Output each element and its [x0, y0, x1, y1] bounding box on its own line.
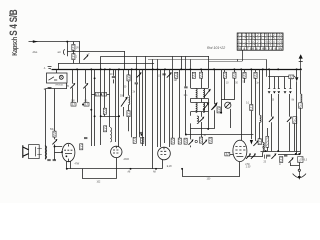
tuning gang arrow [225, 102, 230, 107]
resistor x201 low [200, 137, 203, 143]
node x119 y116.2 [118, 115, 120, 117]
band switch bar [268, 76, 295, 78]
wire v x289.3 [289, 94, 291, 151]
wire v x91.3 lower [91, 94, 93, 146]
capacitor x185.9 [184, 87, 187, 88]
tube V1 cathode blob [66, 155, 68, 157]
node x221.2 y112.7 [220, 112, 222, 114]
chain cap arrow [52, 139, 57, 144]
cathode coil V4 [263, 142, 264, 152]
wire v x244.5 [244, 69, 246, 83]
wire coil to grid row [190, 123, 192, 147]
wire v x100.7 lower [100, 127, 102, 145]
tuning gang circle [225, 102, 231, 108]
IF1 trimmer arrow [205, 91, 210, 97]
node x190.5 bus [190, 68, 192, 70]
IF2 trimmer arrow b [211, 104, 216, 110]
wire v x85.4 [85, 69, 87, 102]
wire v x230.6 low [230, 109, 232, 128]
wire v x161 [160, 69, 162, 147]
wire v x266.2 low [266, 76, 268, 78]
wire h y99.8 gang top [221, 99, 234, 101]
wire v x300.4 [300, 71, 302, 154]
terminal E [48, 88, 52, 89]
node x136.3 bus [135, 68, 137, 70]
node x208.2 y128.9 [207, 128, 209, 130]
resistor 500a [133, 137, 136, 143]
wire box to V4 [230, 154, 233, 156]
wire R1-R2 column [73, 42, 75, 64]
loudspeaker frame [29, 145, 40, 159]
resistor x244.5 [243, 72, 246, 78]
wire vertical x237.5 [237, 59, 239, 61]
resistor x255.5 [254, 72, 257, 78]
wire vertical x80 [79, 42, 81, 64]
wire v x181.2 upper [181, 56, 183, 69]
wire horizontal y51.4 [67, 51, 125, 53]
earth hook [293, 174, 306, 178]
wire v x278.2 [278, 94, 280, 151]
lamp cross [60, 76, 63, 79]
node y168.8 b [155, 168, 157, 170]
node x265.7 y151.1 [265, 150, 267, 152]
wire x58 y63-69 [58, 63, 60, 69]
loudspeaker cone [23, 145, 29, 158]
wire v x169.4 [169, 69, 171, 147]
node x54.5 y146.5 [54, 146, 56, 148]
osc coil right [260, 115, 261, 122]
node x91.3 y109.7 [90, 109, 92, 111]
node x185.9 y134.5 [185, 134, 187, 136]
wire v x157.5 [157, 69, 159, 147]
mains arrow stem [300, 59, 302, 71]
wire terminal E to switchbox [46, 88, 68, 90]
output tran hatch [293, 117, 296, 123]
switch contact 3 [278, 77, 280, 89]
bottom row cap a [267, 155, 270, 156]
node x299.3 y154 [298, 153, 300, 155]
resistor R1 [72, 44, 75, 50]
switch contact 1 [269, 69, 271, 88]
wire v x179.8 [179, 69, 181, 138]
tube V2 envelope [111, 146, 122, 157]
node x94.6 y78.3 [94, 77, 96, 79]
small node circle [263, 146, 265, 148]
choke coil [300, 94, 302, 102]
wire h y151.1 left ext [261, 151, 277, 153]
wire v x255.5 [255, 69, 257, 141]
wire chain to tube1 grid [55, 152, 63, 154]
wire tube1 to heater bus [66, 162, 68, 169]
node top joint [66, 41, 68, 43]
IF link wire [191, 98, 202, 115]
hatched box on switch bar [289, 75, 294, 79]
trimmer x168 top [167, 72, 172, 77]
padder cap arrow [70, 83, 75, 88]
tube1 second base drop [70, 161, 72, 169]
resistor 500b [141, 137, 144, 143]
node mains joint [300, 68, 302, 70]
node bus x77 [76, 68, 78, 70]
svg-text:E,28: E,28 [167, 166, 172, 168]
wire v x136.3 [136, 69, 138, 137]
trimmer pad b [287, 117, 292, 122]
wire v x152.8 long [152, 59, 154, 169]
left resistor chain [54, 89, 56, 160]
node x234.4 bus [233, 68, 235, 70]
IF1 secondary coil [203, 89, 204, 99]
wire v x262.8 [262, 69, 264, 156]
node x104.9 bus [104, 68, 106, 70]
choke box [299, 103, 303, 108]
tube data table frame [237, 33, 283, 50]
wire v x259.7 [259, 69, 261, 138]
node x214.1 bus [213, 68, 215, 70]
svg-text:A306: A306 [124, 158, 130, 161]
small res right of tube1 top [80, 144, 83, 150]
wire v x172.7 [172, 69, 174, 138]
wire v x208.2 [208, 69, 210, 129]
wire v x119 [118, 69, 120, 146]
heater bus wire [67, 168, 162, 170]
stub x185.9 up [185, 56, 187, 69]
node tube1 base [66, 168, 68, 170]
tube V2 electrodes [113, 146, 118, 153]
wire v x234.4 [234, 69, 236, 100]
wire horizontal y56.3 [101, 56, 209, 58]
bottom row arrow b [251, 153, 256, 158]
node x251.3 bus [250, 68, 252, 70]
stub x157.5 up [157, 59, 159, 69]
capacitor x135 [135, 83, 138, 84]
cap column x185.9 [185, 69, 187, 134]
wire drop to trimmer [67, 42, 69, 57]
resistor x184 row [184, 138, 187, 144]
wire v x241.2 [241, 69, 243, 140]
IF2 primary coil [196, 103, 197, 113]
wire v x94.6 lower [94, 92, 96, 146]
trimmer x138 top [137, 72, 142, 77]
electrolytic triangle [295, 77, 298, 81]
svg-text:ant: ant [58, 51, 62, 54]
node x182.1 y168.8 [181, 168, 183, 170]
node x201.1 bus [200, 68, 202, 70]
coupling circlet [195, 140, 197, 142]
resistor x172 [171, 138, 174, 144]
cap arrow C2 [83, 83, 88, 88]
trimmer x201 mid [199, 117, 204, 122]
node x295.7 y154 [295, 153, 297, 155]
resistor x259.7 low [258, 139, 261, 145]
wire speaker drop [45, 89, 47, 160]
resistor x103.5 low [104, 126, 107, 132]
earth hook arrow [299, 171, 301, 176]
node x152.8 bus [152, 68, 154, 70]
wire v x214.1 [214, 69, 216, 129]
antenna lead-in wire [29, 41, 81, 43]
wire v x225 [224, 69, 226, 100]
mains arrowhead [299, 54, 303, 58]
node x131.7 bus [131, 68, 133, 70]
capacitor x164 top [162, 74, 165, 75]
wire vertical x266.2 [266, 59, 268, 77]
svg-text:1R: 1R [76, 47, 79, 49]
trimmer x203 row [202, 140, 207, 145]
grid cap arrow [189, 139, 194, 144]
switch contact feet dots [268, 92, 291, 93]
wire v x128.5 [128, 69, 130, 131]
tube V1 anode tick [68, 144, 70, 146]
field coil [45, 146, 47, 159]
main supply bus [52, 69, 302, 71]
bottom row arrow a [246, 153, 251, 158]
coil x128 [129, 95, 130, 104]
wire v x115.9 [115, 69, 117, 142]
grid stopper box left of V4 [225, 152, 230, 156]
cap below speaker b [53, 160, 56, 161]
wire v x294.8 low [294, 124, 296, 152]
node x100.7 y116.2 [100, 115, 102, 117]
wire vertical x125 [124, 51, 126, 69]
resistor x251 [250, 105, 253, 111]
wire v x77.1 [77, 69, 79, 102]
svg-text:Abst.: Abst. [33, 51, 39, 54]
wire v x91.3 [91, 69, 93, 94]
svg-text:2.50': 2.50' [246, 166, 251, 168]
wire h y134.5 [186, 134, 254, 136]
wire h y151.1 [277, 151, 301, 153]
node x296.6 bus [296, 68, 298, 70]
resistor x128 low [127, 111, 130, 117]
svg-text:50 4 7 80 4 2 95 2,8 6,3V: 50 4 7 80 4 2 95 2,8 6,3V [238, 47, 283, 51]
node x91.3 bus [90, 68, 92, 70]
earth link bar [290, 162, 300, 169]
wire v x267.2 ends [267, 128, 269, 151]
wire v x72.4 [72, 69, 74, 102]
resistor 50k b [102, 92, 107, 96]
IF2 secondary coil [203, 103, 204, 113]
node x278.2 bus [277, 68, 279, 70]
wire h y146.5 to tube1 [55, 146, 63, 148]
resistor box 0R [84, 103, 89, 107]
cathode loop left [82, 164, 116, 179]
wire v x139.8 [139, 69, 141, 137]
speaker core bar [35, 147, 37, 157]
choke box hatch [299, 103, 302, 108]
output tran box [293, 117, 297, 124]
tube V4 electrodes [235, 146, 245, 156]
node x141.5 y136 [141, 134, 143, 136]
wire tube2 base drop [116, 158, 118, 164]
earth terminal circle [298, 169, 300, 171]
mains arrow flick [299, 61, 303, 63]
resistor 50k a [95, 92, 100, 96]
IF1 bottom bar [191, 98, 209, 100]
stub x136.3 up [136, 56, 138, 69]
antenna arrowhead [33, 40, 38, 43]
node x85 y103 [82, 104, 84, 106]
node x100.7 bus [100, 68, 102, 70]
wire v x165 [164, 69, 166, 143]
bypass cap bars [265, 155, 267, 159]
resistor x192.3 top [192, 72, 195, 78]
wire bus to box [56, 69, 58, 73]
wire v x251.3 [251, 69, 253, 139]
coupling cap triangle [250, 140, 253, 145]
IF1 top bar [191, 88, 209, 90]
svg-text:HF2041: HF2041 [56, 84, 65, 86]
table cell figures [238, 33, 283, 51]
resistor x225 [223, 72, 226, 78]
node x269.1 bus [268, 68, 270, 70]
tube V3 envelope [158, 147, 171, 160]
node x278.2 y151.1 [277, 150, 279, 152]
cap below speaker a [47, 160, 50, 161]
node x165 bus [164, 68, 166, 70]
air coil loops [197, 116, 199, 124]
wire box to E line [66, 83, 68, 89]
heater winding box [298, 157, 303, 163]
wire h y116.2 [101, 116, 119, 118]
node x109.9 bus [109, 68, 111, 70]
svg-text:1M: 1M [174, 80, 177, 82]
wire h y128.9 [191, 128, 215, 130]
wire v x100.7 long [100, 56, 102, 127]
capacitor x139.5 [139, 132, 142, 133]
trimmer pad a [269, 117, 274, 122]
resistor x128 top [127, 75, 130, 81]
heater box hatch [298, 157, 303, 162]
resistor mid [103, 108, 106, 114]
node y168.8 a [130, 168, 132, 170]
node x262.8 bus [262, 68, 264, 70]
wire vertical to table [242, 50, 244, 61]
resistor x209 row [209, 137, 212, 143]
resistor x201 top [200, 72, 203, 78]
oscillator coil L2 [110, 128, 111, 142]
tube V3 electrodes [161, 147, 167, 154]
wire v x94.6 [94, 69, 96, 92]
resistor R2 [72, 54, 75, 60]
wire v x142.7 [142, 69, 144, 146]
wire v x296.6 [296, 69, 298, 154]
stub x172.7 up [172, 56, 174, 69]
gang stator box [217, 107, 220, 113]
resistor x176 top [175, 72, 178, 78]
IF2 bottom bar [191, 111, 209, 113]
contact feet [268, 89, 292, 92]
tall resistor hatch [266, 137, 268, 146]
resistor x234 [233, 72, 236, 78]
cap C3 column [113, 69, 115, 83]
tube V4 envelope [233, 140, 247, 161]
svg-text:m: m [279, 164, 281, 166]
resistor x179 [178, 138, 181, 144]
pot box left [280, 157, 283, 163]
wire v x123.9 [123, 69, 125, 116]
node tube1 grid [61, 151, 63, 153]
switch lever [49, 77, 58, 80]
diode arrow D1 [84, 54, 89, 59]
svg-text:Rot 101+22: Rot 101+22 [207, 46, 225, 50]
wire v x201.1 [201, 69, 203, 137]
trimmer 500 [121, 99, 127, 107]
wire h y156.6 [247, 156, 263, 158]
wire v x271.3 [271, 94, 273, 151]
node x94.6 y116.3 [94, 115, 96, 117]
wire v x145.7 [145, 69, 147, 146]
wire horizontal y63.3 [58, 63, 154, 65]
capacitor C3 [112, 77, 115, 78]
wire v x209 upper [208, 56, 210, 69]
speaker coupling caps [37, 149, 42, 155]
terminal A [48, 67, 52, 70]
wire v x104.9 [104, 69, 106, 116]
switch contact 4 [284, 77, 286, 89]
IF transformer 1 top lead [190, 69, 192, 88]
node x181.2 bus [180, 68, 182, 70]
node x119 bus [118, 68, 120, 70]
IF1 primary coil [196, 89, 197, 99]
volume arrow [289, 157, 294, 162]
node x157.5 bus [157, 68, 159, 70]
wire tube3 base drop [162, 160, 164, 169]
cathode loop right [182, 162, 240, 177]
bottom row arrow c [271, 153, 276, 158]
wire horizontal y61.3 [209, 61, 242, 63]
tube V1 base stem [68, 159, 70, 162]
IF2 trimmer arrow a [203, 104, 208, 110]
wire h y154 [278, 154, 301, 156]
wire h y94.2 [91, 94, 109, 96]
wire v x221.2 [221, 69, 223, 112]
cap left edge low [84, 138, 87, 139]
trimmer cap plate [63, 49, 64, 55]
wire v x109.9 [109, 69, 111, 127]
switch contact 2 [274, 77, 276, 89]
trimmer x255 low [253, 141, 258, 146]
resistor box 100 [71, 103, 76, 107]
stub x190.5 up [190, 59, 192, 69]
wire horizontal y59.2 [148, 59, 266, 61]
dial lamp [59, 75, 63, 79]
IF2 top bar [191, 102, 209, 104]
resistor tall x267.2 [266, 136, 269, 147]
tube V1 grid dashes [64, 150, 72, 153]
switch contact 5 [290, 77, 292, 89]
switch box frame [47, 73, 68, 83]
node x241.2 bus [240, 68, 242, 70]
wire v x131.7 [131, 69, 133, 137]
resistor chain box [53, 131, 56, 137]
tube V1 envelope [62, 143, 75, 161]
stub x145.7 up [145, 56, 147, 69]
trimmer x214 [212, 104, 217, 109]
bottom row cap b [284, 155, 287, 156]
svg-text:47W: 47W [75, 164, 81, 166]
